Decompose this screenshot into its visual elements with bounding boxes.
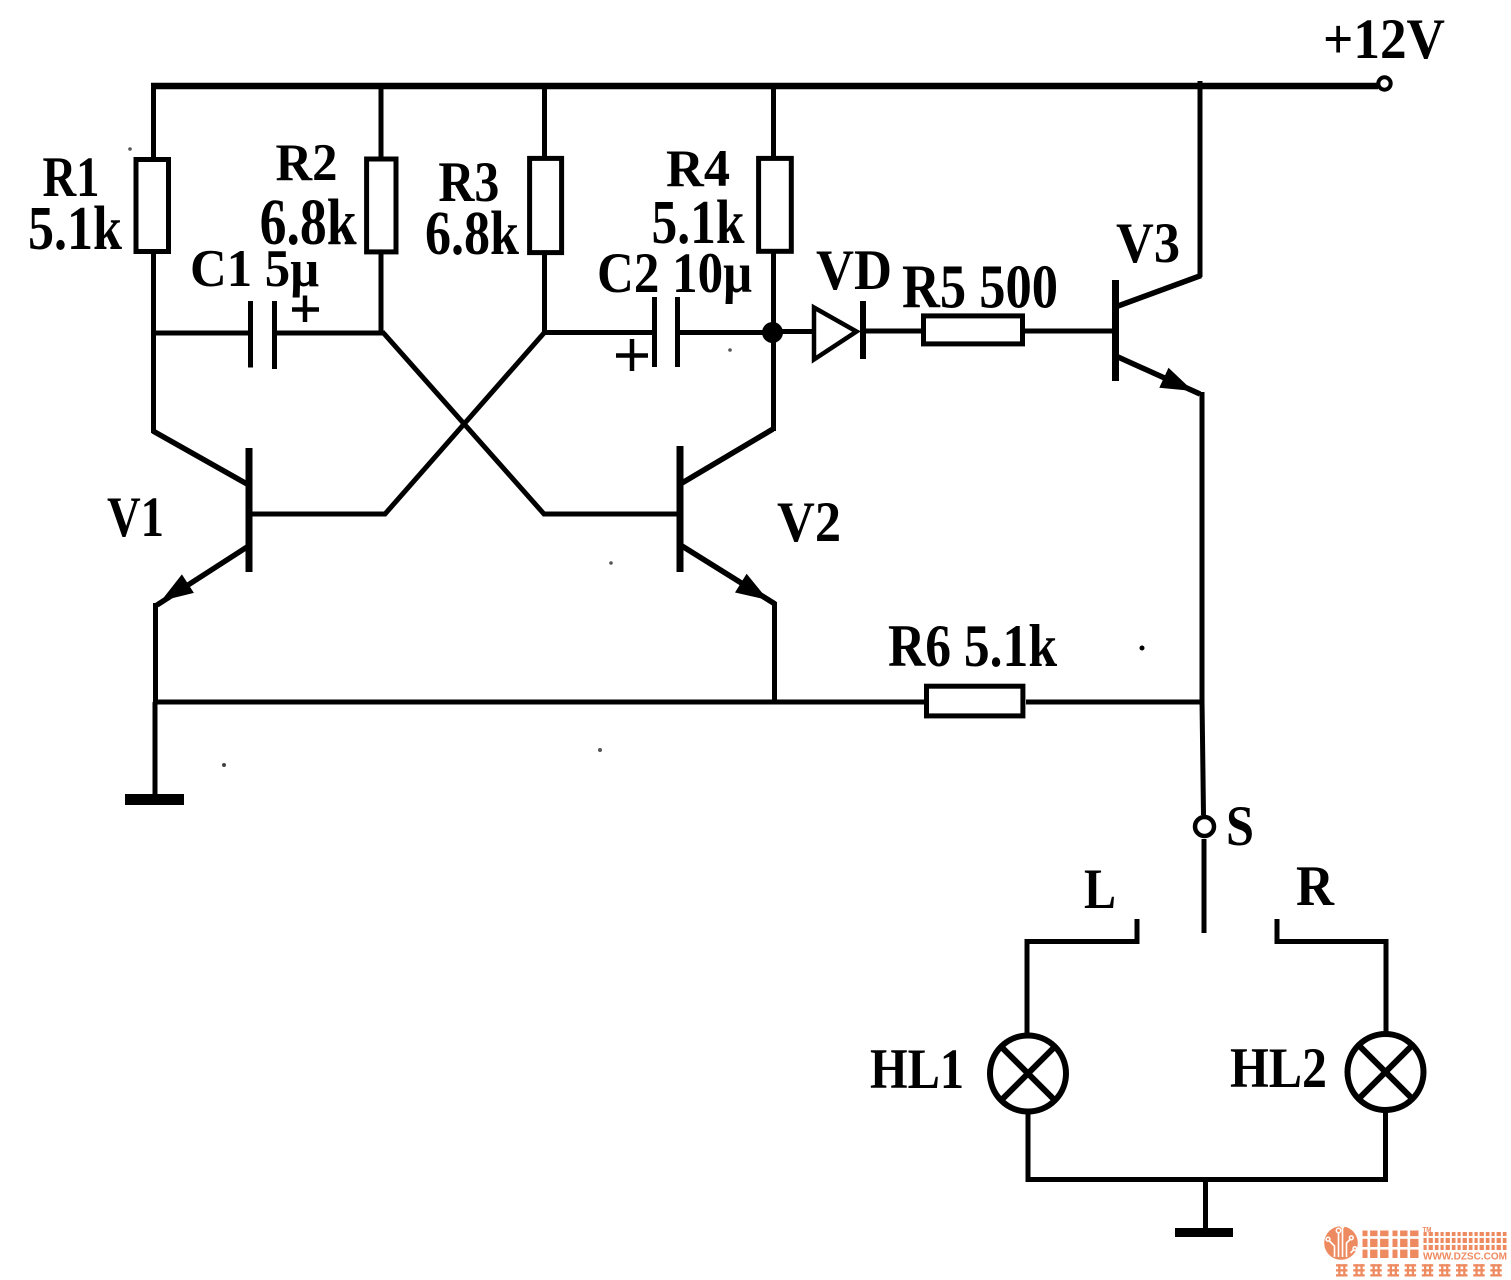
svg-text:S: S <box>1226 795 1254 858</box>
ground (left) <box>125 702 184 800</box>
diode VD <box>814 301 863 360</box>
wire: cross-coupling from R3 node to V1 base <box>249 333 544 514</box>
svg-text:5.1k: 5.1k <box>28 195 122 263</box>
wire: R1 top lead <box>151 83 156 160</box>
capacitor C1 <box>251 296 320 370</box>
wire: R4 top lead <box>771 83 776 158</box>
terminal: +12V <box>1378 77 1390 89</box>
contact R <box>1277 919 1387 942</box>
wire: R contact to HL2 <box>1384 939 1389 1032</box>
transistor V3 <box>1116 276 1202 395</box>
wire: lamp bottom bus <box>1027 1177 1386 1182</box>
switch S <box>1195 817 1214 933</box>
resistor R5 <box>924 316 1023 344</box>
resistor R6 <box>927 686 1023 716</box>
wire: V2 emitter down <box>772 602 777 704</box>
wire: diode cathode to R5 <box>866 329 922 334</box>
transistor V1 <box>153 431 249 605</box>
wire: R4 bottom lead <box>771 251 776 333</box>
svg-text:6.8k: 6.8k <box>260 186 357 259</box>
wire: emitter bus to R6 <box>153 700 925 705</box>
stray mark <box>222 763 226 767</box>
wire: R3 node to C2 left plate <box>544 330 655 335</box>
wire: cross-coupling from R2/C1 node to V2 base <box>384 333 679 514</box>
wire: C1 right plate to R2 node <box>277 331 385 336</box>
resistor R1 <box>136 160 169 252</box>
wire: R3 bottom lead <box>542 252 547 335</box>
wire: +12V supply rail <box>151 83 1378 90</box>
svg-text:R: R <box>1296 855 1335 918</box>
stray mark <box>609 561 613 565</box>
transistor V2 <box>680 429 775 604</box>
svg-text:V2: V2 <box>777 491 841 554</box>
resistor R2 <box>367 159 396 252</box>
svg-text:+12V: +12V <box>1323 8 1445 71</box>
watermark: brand hanzi (two large characters) <box>1363 1231 1419 1259</box>
wire: switch node down to S <box>1202 700 1204 815</box>
svg-text:6.8k: 6.8k <box>425 200 519 268</box>
wire: C1 left branch <box>151 331 250 336</box>
watermark: slogan hanzi row <box>1336 1264 1502 1276</box>
wire: HL1 to bottom bus <box>1026 1113 1031 1182</box>
capacitor C2 <box>616 297 678 371</box>
wire: L contact to HL1 <box>1025 939 1030 1034</box>
svg-text:L: L <box>1084 858 1116 921</box>
svg-text:R5 500: R5 500 <box>902 254 1058 322</box>
resistor R3 <box>530 158 562 252</box>
wire: R1 bottom lead / V1 collector branch <box>151 254 156 433</box>
wire: junction to diode anode <box>772 329 813 334</box>
wire: R2 bottom lead <box>379 252 384 335</box>
svg-text:R2: R2 <box>276 134 338 192</box>
svg-text:V3: V3 <box>1116 212 1180 275</box>
node: junction dot at C2/R4/VD/V2 collector <box>762 322 783 343</box>
wire: R5 to V3 base <box>1025 329 1114 334</box>
wire: C2 right plate to junction <box>680 330 772 335</box>
wire: R2 top lead <box>379 83 384 160</box>
stray mark <box>598 748 602 752</box>
wire: R6 to switch node <box>1026 700 1204 705</box>
stray mark <box>128 147 132 151</box>
lamp HL2 <box>1348 1034 1424 1110</box>
stray mark <box>728 348 732 352</box>
wire: V3 emitter down to R6 node <box>1200 392 1205 704</box>
svg-text:5.1k: 5.1k <box>652 189 745 257</box>
svg-text:V1: V1 <box>107 486 164 549</box>
wire: R3 top lead <box>542 83 547 158</box>
resistor R4 <box>759 158 792 251</box>
wire: V3 collector to rail <box>1198 81 1203 277</box>
wire: V1 emitter down <box>153 603 158 704</box>
watermark: Weiku logo circle icon <box>1324 1224 1358 1260</box>
svg-text:HL2: HL2 <box>1230 1037 1327 1100</box>
wire: HL2 to bottom bus <box>1383 1111 1388 1182</box>
stray mark <box>1140 646 1145 651</box>
svg-text:WWW.DZSC.COM: WWW.DZSC.COM <box>1423 1251 1507 1263</box>
watermark: market-name hanzi row <box>1424 1232 1507 1250</box>
contact L <box>1026 919 1137 942</box>
svg-text:HL1: HL1 <box>870 1038 964 1101</box>
lamp HL1 <box>990 1036 1066 1112</box>
svg-text:VD: VD <box>816 239 892 302</box>
wire: V2 collector vertical <box>771 332 776 431</box>
ground (bottom) <box>1175 1180 1233 1233</box>
svg-text:R6 5.1k: R6 5.1k <box>888 613 1058 679</box>
